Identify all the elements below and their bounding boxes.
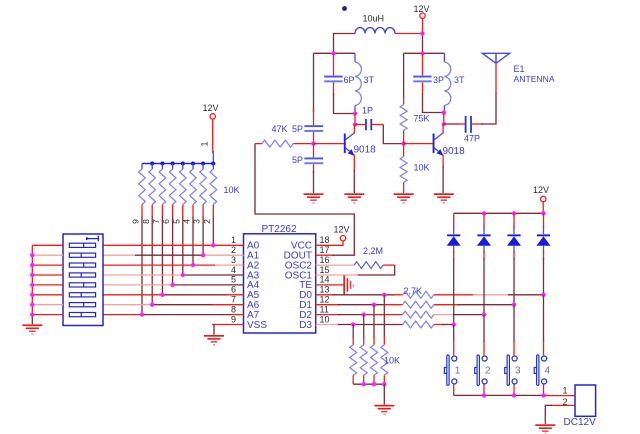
wire bus to S1 rows bbox=[32, 245, 63, 314]
resistor network RN1 10K x8 bbox=[139, 164, 240, 217]
wire D0 to button 4 bbox=[434, 294, 544, 296]
svg-text:14: 14 bbox=[320, 275, 330, 285]
svg-text:2: 2 bbox=[563, 397, 568, 407]
wire RN1 column 8 bbox=[151, 216, 153, 305]
junction D1 pulldown bbox=[372, 303, 376, 307]
wire row A2 bbox=[103, 264, 244, 266]
diode D4 bbox=[537, 234, 551, 245]
wire L1 right lead bbox=[395, 33, 423, 35]
wire button 2 to bottom rail bbox=[483, 385, 485, 396]
svg-text:D3: D3 bbox=[299, 320, 312, 331]
wire C5 bottom to tank2 bottom bbox=[423, 93, 445, 113]
wire row A6 bbox=[103, 304, 244, 306]
ground (DC input) bbox=[535, 424, 555, 434]
dip switch S1 bbox=[63, 234, 103, 326]
wire row A0 (DIP to U1 pin 1) bbox=[103, 244, 244, 246]
svg-text:2: 2 bbox=[485, 365, 491, 376]
inductor L3 3T bbox=[444, 53, 465, 112]
junction Q2 collector/C6 bbox=[442, 122, 446, 126]
wire rail to ground bbox=[383, 384, 385, 404]
svg-text:9: 9 bbox=[131, 219, 141, 224]
wire Q1 emitter to ground bbox=[353, 155, 355, 194]
resistor R3 10K bbox=[400, 144, 429, 193]
junction A4/column6 bbox=[170, 283, 174, 287]
svg-text:1: 1 bbox=[563, 385, 568, 395]
wire button 4 to bottom rail bbox=[543, 385, 545, 396]
svg-text:47K: 47K bbox=[272, 124, 288, 134]
svg-text:9018: 9018 bbox=[443, 146, 466, 157]
node 12V supply (right) bbox=[533, 185, 549, 202]
transistor Q2 9018 bbox=[433, 133, 466, 157]
svg-text:17: 17 bbox=[320, 245, 330, 255]
resistor R2 75K bbox=[400, 105, 429, 144]
ground (pulldown rail) bbox=[374, 405, 394, 415]
wire button 1 to bottom rail bbox=[453, 385, 455, 396]
svg-text:1P: 1P bbox=[362, 106, 373, 116]
wire VCC pin 18 bbox=[316, 241, 343, 245]
svg-text:12V: 12V bbox=[533, 185, 549, 195]
junction D1/D3 row bbox=[452, 322, 456, 326]
capacitor C1 6P bbox=[324, 53, 354, 95]
wire row A1 bbox=[103, 254, 244, 256]
wire 12V rail down to tank2 bbox=[422, 34, 424, 54]
junction D4/D0 row bbox=[541, 293, 545, 297]
svg-text:4: 4 bbox=[231, 265, 236, 275]
junction rail D3 bbox=[512, 211, 516, 215]
transistor Q1 9018 bbox=[344, 133, 376, 156]
junction Q1 base node bbox=[311, 141, 315, 145]
wire Q2 emitter to ground bbox=[442, 155, 444, 194]
junction rail 12V bbox=[541, 211, 545, 215]
wire C1 bottom to tank1 bottom bbox=[334, 93, 356, 114]
wire D1 to D3 row bbox=[453, 246, 455, 325]
junction bottom rail S5 bbox=[541, 393, 545, 397]
svg-text:75K: 75K bbox=[414, 114, 430, 124]
resistor R11 10K bbox=[371, 336, 378, 384]
ground (C3) bbox=[304, 193, 324, 203]
wire pulldown column D0 bbox=[383, 295, 385, 338]
junction D2/D2 row bbox=[482, 312, 486, 316]
wire pulldown column D3 bbox=[352, 325, 354, 339]
svg-text:10K: 10K bbox=[384, 355, 400, 365]
wire tank2 top node bbox=[404, 52, 445, 54]
junction collector/C4 bbox=[353, 122, 357, 126]
wire left common bus bbox=[31, 245, 33, 314]
svg-text:3T: 3T bbox=[454, 75, 465, 85]
svg-text:5: 5 bbox=[231, 275, 236, 285]
svg-text:10K: 10K bbox=[224, 185, 240, 195]
wire D2 to D2 row bbox=[483, 246, 485, 315]
junction rail R12 bbox=[382, 382, 386, 386]
svg-text:47P: 47P bbox=[464, 133, 480, 143]
wire diode top rail bbox=[454, 212, 544, 214]
svg-text:12V: 12V bbox=[334, 225, 350, 235]
junction rail R10 bbox=[362, 382, 366, 386]
junction A5/column7 bbox=[160, 293, 164, 297]
junction tank2 top bbox=[420, 51, 424, 55]
wire RN1 column 4 bbox=[192, 216, 194, 265]
wire D4 to D0 row bbox=[543, 246, 545, 295]
resistor R1 47K bbox=[255, 140, 314, 147]
capacitor C6 47P bbox=[444, 116, 483, 143]
capacitor C3 5P (lower) bbox=[292, 144, 323, 173]
junction A2/column4 bbox=[191, 263, 195, 267]
wire rail to D1 bbox=[453, 213, 455, 234]
junction A0/column2 bbox=[211, 243, 215, 247]
junction (stray dot top) bbox=[342, 6, 347, 11]
wire 12V to network rail bbox=[212, 119, 215, 163]
svg-text:ANTENNA: ANTENNA bbox=[514, 74, 555, 84]
svg-text:3: 3 bbox=[515, 365, 521, 376]
resistor R9 10K bbox=[350, 336, 357, 384]
wire tank2 left branch bbox=[403, 53, 405, 104]
junction bottom rail S4 bbox=[512, 393, 516, 397]
wire D3 to D1 row bbox=[513, 246, 515, 305]
svg-text:16: 16 bbox=[320, 255, 330, 265]
ground (Q1 emitter) bbox=[344, 193, 364, 203]
junction tank1 top bbox=[331, 51, 335, 55]
svg-text:DC12V: DC12V bbox=[564, 417, 597, 428]
wire RN1 column 2 bbox=[212, 216, 214, 245]
capacitor C4 1P bbox=[355, 106, 383, 131]
wire row A3 bbox=[103, 274, 244, 276]
ground (Q2 emitter) bbox=[434, 193, 454, 203]
svg-text:3P: 3P bbox=[433, 75, 444, 85]
svg-text:3: 3 bbox=[231, 255, 236, 265]
wire Q1 collector bbox=[353, 125, 355, 134]
svg-text:VSS: VSS bbox=[247, 320, 267, 331]
wire C3 to ground bbox=[313, 171, 315, 193]
wire C6 to antenna bbox=[481, 63, 496, 124]
wire D2 to button 2 bbox=[434, 314, 484, 316]
node 12V supply (top) bbox=[414, 4, 430, 18]
junction Q2 base node bbox=[401, 141, 405, 145]
wire row A4 bbox=[103, 284, 244, 286]
svg-text:8: 8 bbox=[231, 304, 236, 314]
diode D2 bbox=[477, 234, 491, 245]
wire 12V to L1 node bbox=[422, 18, 424, 33]
svg-text:6: 6 bbox=[231, 285, 236, 295]
node 12V supply (left) bbox=[203, 103, 219, 119]
resistor R4 2.2M bbox=[354, 246, 395, 269]
svg-text:10: 10 bbox=[320, 314, 330, 324]
svg-text:3T: 3T bbox=[364, 75, 375, 85]
U1 left pin numbers 1-9 bbox=[231, 235, 236, 324]
wire D2 pin 11 bbox=[316, 314, 403, 316]
wire row to button 2 bbox=[483, 315, 485, 356]
svg-text:12V: 12V bbox=[203, 103, 219, 113]
wire DOUT pin 17 to R1 bbox=[255, 144, 354, 256]
push button S4 bbox=[505, 355, 517, 385]
svg-text:10uH: 10uH bbox=[363, 14, 385, 24]
svg-text:5P: 5P bbox=[292, 124, 303, 134]
wire rail to D4 bbox=[543, 213, 545, 234]
resistor R12 10K bbox=[381, 336, 400, 384]
ground (left bus) bbox=[22, 324, 42, 334]
wire L1 left lead bbox=[334, 34, 356, 54]
svg-text:1: 1 bbox=[455, 365, 461, 376]
wire VSS pin 9 bbox=[212, 324, 244, 335]
junction rail R11 bbox=[372, 382, 376, 386]
junction A3/column5 bbox=[181, 273, 185, 277]
wire D1 to button 3 bbox=[434, 304, 514, 306]
wire connector pin 2 to ground bbox=[545, 405, 575, 424]
svg-text:6P: 6P bbox=[344, 75, 355, 85]
junction rail D2 bbox=[482, 211, 486, 215]
wire row to button 3 bbox=[513, 305, 515, 356]
svg-text:E1: E1 bbox=[514, 64, 525, 74]
U1 right pin numbers 18-10 bbox=[320, 235, 330, 324]
svg-text:2: 2 bbox=[231, 245, 236, 255]
junction L1/12V bbox=[420, 31, 424, 35]
ground (TE, rotated) bbox=[343, 275, 354, 294]
resistor R5 2.7K bbox=[403, 291, 434, 298]
junction A1/column3 bbox=[201, 253, 205, 257]
wire OSC2 pin 16 bbox=[316, 264, 355, 266]
wire tank1 left branch bbox=[313, 53, 315, 112]
push button S2 bbox=[444, 355, 456, 385]
wire row to button 1 bbox=[453, 325, 455, 356]
wire pulldown column D1 bbox=[373, 305, 375, 338]
junction D3 pulldown bbox=[351, 322, 355, 326]
wire rail to D2 bbox=[483, 213, 485, 234]
push button S3 bbox=[475, 355, 487, 385]
label RN1 pin numbers 9-2 (rotated) bbox=[131, 219, 212, 224]
wire OSC1 pin 15 loop bbox=[316, 265, 395, 275]
wire bottom rail to connector pin 1 bbox=[454, 394, 575, 396]
junction A6/column8 bbox=[150, 303, 154, 307]
IC U1 PT2262 bbox=[244, 224, 316, 333]
wire D0 pin 13 bbox=[316, 294, 403, 296]
resistor R7 2.7K bbox=[403, 311, 434, 318]
junction A7/column9 bbox=[140, 312, 144, 316]
inductor L1 10uH bbox=[355, 14, 395, 34]
wire pulldown column D2 bbox=[363, 315, 365, 338]
capacitor C5 3P bbox=[413, 53, 444, 95]
wire row A5 bbox=[103, 294, 244, 296]
junction bus row dots bbox=[30, 253, 34, 317]
svg-text:5P: 5P bbox=[292, 155, 303, 165]
push button S5 bbox=[534, 355, 546, 385]
junction tank1 bottom bbox=[353, 111, 357, 115]
svg-text:18: 18 bbox=[320, 235, 330, 245]
wire row A7 bbox=[103, 314, 244, 316]
junction tank2 bottom bbox=[442, 111, 446, 115]
diode D3 bbox=[507, 234, 521, 245]
ground (R3) bbox=[394, 193, 414, 203]
wire D3 to button 1 bbox=[434, 324, 454, 326]
svg-text:12: 12 bbox=[320, 295, 330, 305]
svg-text:2,2M: 2,2M bbox=[363, 246, 383, 256]
svg-text:11: 11 bbox=[320, 304, 329, 314]
wire RN1 column 7 bbox=[161, 216, 163, 295]
ground (VSS) bbox=[204, 335, 224, 345]
wire RN1 column 5 bbox=[182, 216, 184, 275]
inductor L2 3T bbox=[355, 53, 375, 113]
svg-text:15: 15 bbox=[320, 265, 330, 275]
wire tank2 bottom to collector node bbox=[443, 113, 445, 124]
wire RN1 column 9 bbox=[141, 216, 143, 315]
wire RN1 top rail bbox=[142, 163, 213, 165]
wire Q2 collector bbox=[442, 124, 444, 134]
svg-text:4: 4 bbox=[545, 365, 551, 376]
diode D1 bbox=[447, 234, 461, 245]
wire base node to Q1 bbox=[314, 143, 345, 145]
resistor R8 2.7K bbox=[403, 321, 434, 328]
wire RN1 column 3 bbox=[202, 216, 204, 255]
resistor R10 10K bbox=[360, 336, 367, 384]
wire C4 to Q2 base node bbox=[383, 125, 403, 144]
capacitor C2 5P (upper) bbox=[292, 124, 323, 143]
wire TE pin 14 bbox=[316, 284, 344, 286]
wire pulldown bottom rail bbox=[353, 383, 384, 385]
wire row to button 4 bbox=[543, 295, 545, 356]
svg-text:9018: 9018 bbox=[354, 145, 377, 156]
wire tank1 bottom to collector node bbox=[354, 114, 356, 125]
junction D3/D1 row bbox=[512, 303, 516, 307]
wire rail to D3 bbox=[513, 213, 515, 234]
junction D2 pulldown bbox=[362, 312, 366, 316]
wire D1 pin 12 bbox=[316, 304, 403, 306]
svg-text:7: 7 bbox=[231, 295, 236, 305]
resistor R6 2.7K bbox=[403, 301, 434, 308]
junction D0 pulldown bbox=[382, 293, 386, 297]
svg-text:9: 9 bbox=[231, 314, 236, 324]
antenna E1 bbox=[482, 53, 555, 84]
wire button 3 to bottom rail bbox=[513, 385, 515, 396]
node 12V supply (VCC) bbox=[334, 225, 350, 241]
wire base node to Q2 bbox=[404, 143, 433, 145]
wire bus to ground bbox=[31, 315, 33, 325]
junction bottom rail S3 bbox=[482, 393, 486, 397]
wire D3 pin 10 bbox=[316, 324, 403, 326]
svg-text:1: 1 bbox=[200, 141, 210, 146]
svg-text:1: 1 bbox=[231, 235, 236, 245]
wire 12V to diode rail bbox=[542, 202, 544, 214]
wire RN1 column 6 bbox=[172, 216, 174, 285]
junction rail dots bbox=[150, 162, 215, 166]
svg-text:13: 13 bbox=[320, 285, 330, 295]
wire tank1 top node bbox=[314, 52, 356, 54]
connector J1 DC12V bbox=[563, 385, 597, 428]
svg-text:10K: 10K bbox=[414, 163, 430, 173]
